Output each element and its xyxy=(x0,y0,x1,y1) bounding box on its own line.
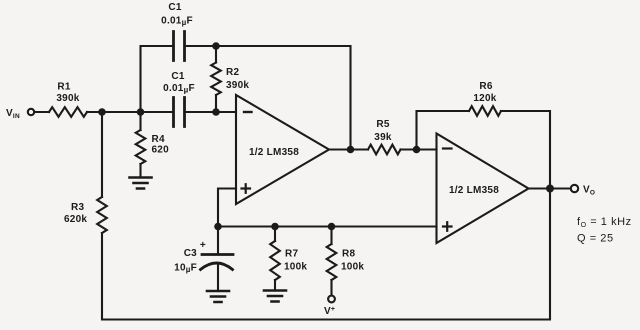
node C (inverting input node) xyxy=(212,108,220,116)
U1 plus sign xyxy=(242,184,251,193)
svg-text:620: 620 xyxy=(152,145,170,156)
svg-text:C1: C1 xyxy=(168,2,181,13)
wire U1 output to R5 xyxy=(329,148,368,150)
ground (R4) xyxy=(130,178,152,189)
resistor R4 xyxy=(139,112,141,130)
svg-text:C1: C1 xyxy=(171,71,184,82)
op-amp U1 (1/2 LM358) xyxy=(236,95,329,204)
svg-text:R8: R8 xyxy=(342,249,355,260)
U2 plus sign xyxy=(443,222,452,231)
wire R1 to node A xyxy=(87,111,141,113)
svg-text:390k: 390k xyxy=(226,80,249,91)
svg-text:R6: R6 xyxy=(479,81,492,92)
wire node B up to top feedback line xyxy=(141,46,174,112)
node B (input summing node) xyxy=(137,108,145,116)
wire node B to C1 mid xyxy=(141,111,174,113)
node E (C3 tap) xyxy=(214,223,222,231)
wire R3 to bottom feedback rail xyxy=(102,189,550,320)
node D (top, R2 tap) xyxy=(212,42,220,50)
node H (U1 output) xyxy=(347,146,355,154)
svg-text:R5: R5 xyxy=(376,119,389,130)
wire top line to op-amp1 output xyxy=(185,46,351,150)
wire U2 output to VO xyxy=(529,187,572,189)
svg-text:390k: 390k xyxy=(56,93,79,104)
svg-text:620k: 620k xyxy=(64,214,87,225)
resistor R6 feedback path xyxy=(417,111,470,150)
op-amp U2 (1/2 LM358) xyxy=(437,134,529,244)
resistor R1 xyxy=(49,107,87,117)
node F (R7 tap) xyxy=(271,223,279,231)
svg-text:R3: R3 xyxy=(71,202,84,213)
svg-text:120k: 120k xyxy=(473,93,496,104)
svg-text:100k: 100k xyxy=(341,262,364,273)
terminal V+ xyxy=(328,296,335,303)
capacitor C1 (series, to inverting input) xyxy=(174,98,185,127)
wire VIN to R1 xyxy=(35,111,50,113)
svg-text:10µF: 10µF xyxy=(174,263,197,275)
svg-text:Q = 25: Q = 25 xyxy=(577,233,614,245)
wire R5 to U2 minus input xyxy=(401,148,437,150)
svg-text:100k: 100k xyxy=(284,262,307,273)
wire U1 plus input down to C3 rail xyxy=(218,189,236,227)
node A (R3 tap) xyxy=(98,108,106,116)
svg-text:C3: C3 xyxy=(184,248,197,259)
input terminal VIN xyxy=(28,109,34,115)
svg-text:1/2 LM358: 1/2 LM358 xyxy=(249,147,299,158)
resistor R8 xyxy=(330,227,332,245)
resistor R2 xyxy=(215,46,217,63)
U1 minus sign xyxy=(244,111,252,113)
node G (R8 tap) xyxy=(328,223,336,231)
capacitor C3 (polarized) xyxy=(217,227,219,255)
capacitor C1 (top feedback) xyxy=(174,32,185,61)
resistor R3 xyxy=(101,112,103,197)
svg-text:R1: R1 xyxy=(57,82,70,93)
svg-text:0.01µF: 0.01µF xyxy=(163,83,195,95)
svg-text:+: + xyxy=(200,240,206,251)
svg-text:R2: R2 xyxy=(226,67,239,78)
ground (C3) xyxy=(207,291,229,302)
resistor R5 xyxy=(368,145,401,155)
svg-text:R7: R7 xyxy=(285,249,298,260)
node J (output node) xyxy=(546,185,554,193)
resistor R7 xyxy=(274,227,276,242)
svg-text:0.01µF: 0.01µF xyxy=(161,16,193,28)
svg-text:R4: R4 xyxy=(152,134,165,145)
U2 minus sign xyxy=(443,147,452,149)
ground (R7) xyxy=(264,291,286,302)
wire C1 mid to node C xyxy=(185,111,236,113)
svg-text:1/2 LM358: 1/2 LM358 xyxy=(449,185,499,196)
terminal VO xyxy=(571,185,578,192)
non-inverting bias rail xyxy=(218,225,437,227)
node I (U2 inverting node) xyxy=(413,146,421,154)
svg-text:39k: 39k xyxy=(374,132,392,143)
